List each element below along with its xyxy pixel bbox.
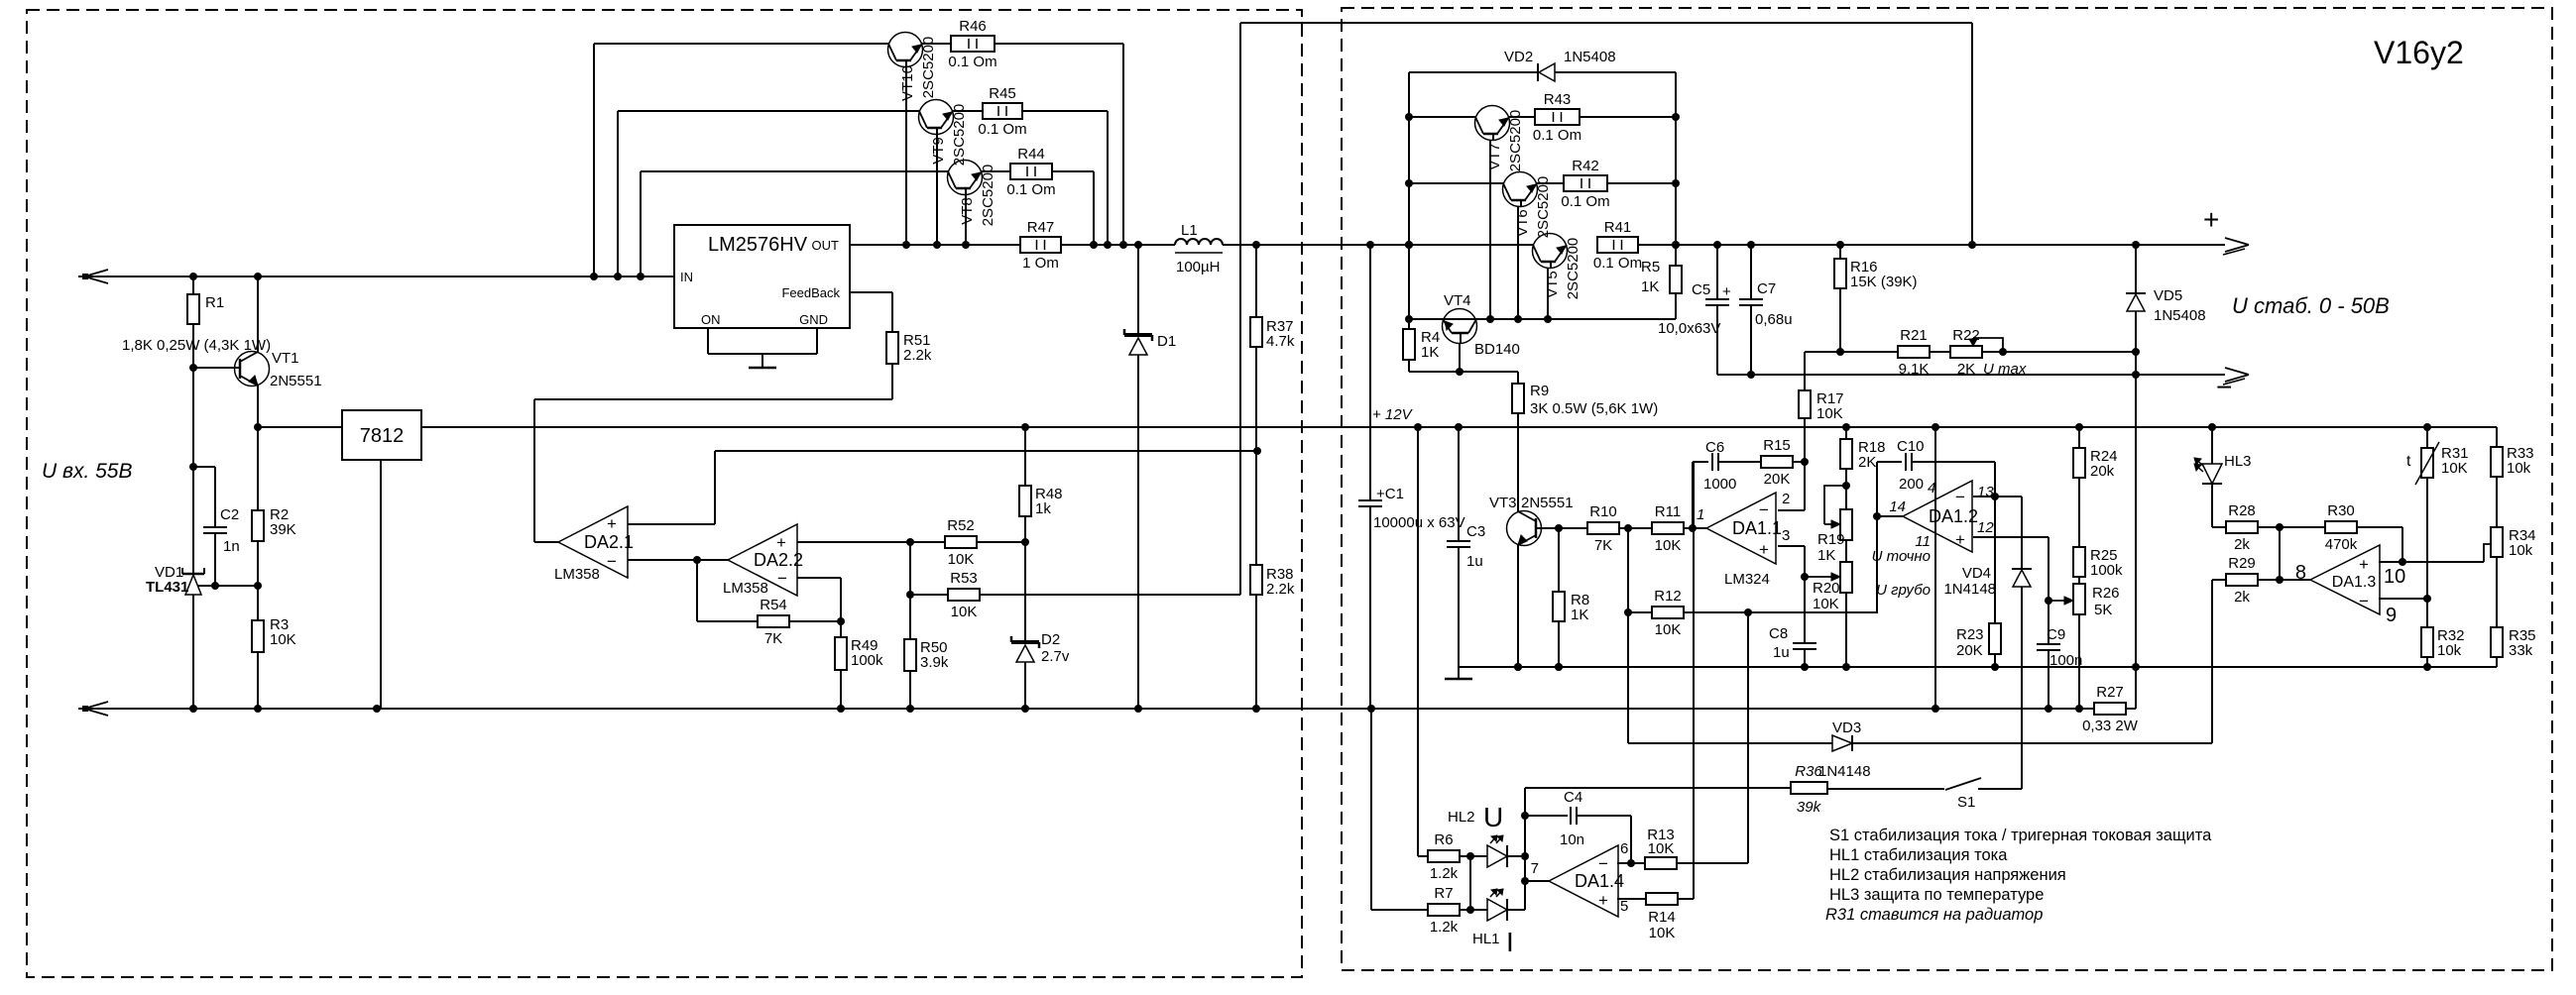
svg-text:C6: C6 (1705, 439, 1724, 456)
resistor R43 (1509, 91, 1581, 144)
wire D1 top (1137, 245, 1139, 335)
svg-text:2.2k: 2.2k (903, 347, 932, 364)
wire C1 bottom (1369, 506, 1371, 709)
pot R34 (2484, 527, 2536, 562)
wire VT1 emitter (254, 386, 262, 431)
svg-text:10k: 10k (2507, 460, 2531, 477)
pot R19 (0, 0, 1852, 564)
svg-text:6: 6 (1620, 840, 1628, 857)
svg-text:2: 2 (1782, 491, 1790, 507)
wire R13 right (1676, 862, 1748, 864)
wire R6 branch (1418, 427, 1429, 856)
diode VD4 (1943, 565, 2032, 598)
op-amp DA2.2 (723, 524, 803, 597)
svg-text:R45: R45 (989, 85, 1016, 102)
svg-text:1N5408: 1N5408 (2154, 307, 2206, 324)
wire S1 line left (1525, 787, 1791, 789)
wire LM2576 out line (850, 244, 1020, 246)
svg-text:C2: C2 (220, 506, 239, 523)
svg-text:C10: C10 (1897, 438, 1925, 455)
capacitor C7 (1739, 245, 1793, 328)
svg-text:+: + (1722, 283, 1731, 300)
wire R50 top (906, 542, 914, 639)
svg-text:+: + (1955, 530, 1965, 549)
svg-text:−: − (607, 552, 617, 571)
svg-text:1K: 1K (1817, 547, 1835, 564)
wire rail corner R33 (2496, 427, 2498, 447)
inductor L1 (1175, 222, 1223, 276)
label U tochno (1872, 548, 1931, 565)
svg-text:200: 200 (1899, 476, 1924, 493)
svg-text:1u: 1u (1773, 644, 1790, 661)
wire VD1 to rail (192, 595, 194, 709)
svg-text:R5: R5 (1641, 259, 1660, 276)
svg-text:−: − (2216, 372, 2232, 402)
op-amp DA2.1 (554, 506, 634, 583)
svg-text:20k: 20k (2090, 463, 2115, 480)
svg-text:1u: 1u (1466, 553, 1483, 570)
svg-text:−: − (1598, 854, 1608, 873)
wire VT9 collector (933, 134, 941, 249)
svg-text:10K: 10K (948, 551, 975, 568)
svg-text:−: − (1955, 488, 1965, 506)
svg-text:8: 8 (2295, 562, 2306, 584)
svg-text:R20: R20 (1813, 580, 1840, 597)
svg-text:10K: 10K (1816, 405, 1843, 422)
svg-text:33k: 33k (2509, 642, 2533, 659)
svg-text:7K: 7K (1594, 537, 1612, 554)
transistor VT5 (1533, 234, 1582, 300)
svg-text:10: 10 (2384, 566, 2405, 588)
svg-text:39k: 39k (1797, 799, 1822, 816)
wire R24 R25 (2078, 478, 2080, 547)
resistor R2 (252, 427, 296, 586)
svg-text:+ 12V: + 12V (1372, 406, 1414, 423)
capacitor C8 (1769, 577, 1816, 661)
svg-text:1.2k: 1.2k (1430, 919, 1459, 936)
svg-text:2SC5200: 2SC5200 (920, 37, 937, 99)
svg-text:0.1 Om: 0.1 Om (1006, 181, 1055, 198)
wire D2 bottom (1024, 662, 1026, 709)
wire R14 right (1677, 898, 1694, 900)
wire R43 right (1580, 116, 1676, 118)
svg-text:1K: 1K (1421, 344, 1439, 361)
resistor R9 (0, 0, 1658, 511)
svg-text:LM2576HV: LM2576HV (708, 234, 808, 256)
wire VT1 collector (257, 276, 259, 352)
svg-text:14: 14 (1889, 498, 1906, 515)
wire VD5 bottom (2135, 311, 2137, 667)
wire D1 bottom (1137, 355, 1139, 709)
wire DA11 pin2 (1778, 462, 1805, 510)
svg-text:0.1 Om: 0.1 Om (1593, 255, 1642, 272)
pot R20 (0, 0, 1852, 612)
wire DA12 power (1934, 427, 1936, 709)
svg-text:R27: R27 (2096, 684, 2124, 701)
svg-text:10K: 10K (1649, 925, 1676, 941)
svg-text:R36: R36 (1795, 763, 1822, 780)
resistor R28 (2226, 502, 2258, 553)
wire R14 vertical (1693, 462, 1695, 899)
wire R42 right (1607, 182, 1676, 184)
svg-text:U точно: U точно (1872, 548, 1931, 565)
resistor R29 (2212, 555, 2258, 606)
diode VD1 TL431 (146, 564, 204, 596)
resistor R54 (758, 597, 789, 647)
wire R22 to VD5 (1981, 348, 2140, 356)
transistor VT8 (948, 161, 997, 227)
frame left dashed box (27, 10, 1302, 977)
resistor R44 (982, 146, 1056, 198)
resistor R13 (1645, 827, 1677, 869)
svg-text:S1 стабилизация тока / тригерн: S1 стабилизация тока / тригерная токовая… (1829, 827, 2212, 844)
label U vx 55V (42, 460, 133, 483)
wire DA11 pin3 (1778, 546, 1809, 581)
wire VT3 to VD3 (1627, 612, 1629, 743)
wire VT10 collector (902, 66, 910, 249)
label legend (1825, 827, 2212, 924)
svg-text:2k: 2k (2234, 536, 2250, 553)
wire DA12 pin13 (1973, 493, 2022, 500)
svg-text:HL3 защита по температуре: HL3 защита по температуре (1829, 886, 2044, 904)
transistor VT4 (1443, 292, 1520, 358)
svg-text:L1: L1 (1181, 222, 1198, 239)
wire R21 line (1805, 348, 1899, 356)
svg-text:R7: R7 (1434, 885, 1453, 902)
svg-text:DA1.1: DA1.1 (1732, 518, 1782, 538)
diode VD2 (1409, 49, 1676, 81)
resistor R18 (1840, 427, 1886, 471)
svg-text:1k: 1k (1035, 500, 1051, 517)
svg-text:R23: R23 (1956, 626, 1984, 643)
svg-text:1 Om: 1 Om (1022, 255, 1059, 272)
label U grubo (1876, 582, 1931, 599)
svg-text:ON: ON (701, 312, 721, 327)
resistor R35 (2491, 627, 2536, 659)
wire VT3 emitter (1514, 545, 1522, 671)
wire DA12 fb (1877, 462, 1902, 516)
wire 7812 gnd (380, 460, 382, 709)
svg-text:2N5551: 2N5551 (1521, 495, 1574, 511)
resistor R51 (886, 292, 932, 399)
resistor R7 (1428, 885, 1460, 936)
wire R41 right (1638, 241, 1717, 249)
wire VT8 base line (641, 171, 948, 276)
svg-text:R41: R41 (1604, 219, 1632, 236)
wire VT10 base line (594, 44, 888, 276)
resistor R33 (2491, 445, 2534, 477)
svg-text:VT4: VT4 (1444, 292, 1471, 309)
wire C8 bottom (1804, 649, 1806, 667)
svg-text:4.7k: 4.7k (1266, 333, 1295, 350)
wire C5 bottom (1716, 305, 1718, 375)
switch S1 (1945, 778, 1981, 811)
svg-text:0.1 Om: 0.1 Om (1533, 127, 1581, 144)
pot R26 (0, 0, 2120, 618)
label +12V (1372, 406, 1414, 423)
svg-text:2SC5200: 2SC5200 (951, 104, 968, 166)
ic U1 LM2576HV (674, 225, 850, 328)
wire C9 top (2048, 601, 2049, 644)
svg-text:R42: R42 (1572, 158, 1599, 174)
wire DA14 out vertical (1521, 788, 1529, 910)
svg-text:C9: C9 (2047, 626, 2065, 643)
wire VT1 base (189, 364, 240, 372)
resistor R23 (0, 0, 2001, 667)
port minus output arrow (2216, 368, 2249, 402)
wire out line to L1 (1061, 241, 1175, 249)
wire DA14 out pin (1525, 880, 1549, 882)
resistor R27 (2082, 684, 2139, 734)
svg-text:I: I (1506, 927, 1514, 957)
wire HL3 bottom (2212, 484, 2227, 527)
svg-text:U вх. 55В: U вх. 55В (42, 460, 133, 483)
svg-text:D2: D2 (1041, 631, 1060, 648)
svg-text:10K: 10K (951, 604, 978, 620)
wire minus line (1717, 371, 2225, 379)
svg-text:−: − (2359, 592, 2369, 610)
svg-text:20K: 20K (1956, 642, 1983, 659)
wire R34 R35 (2496, 557, 2498, 627)
resistor R30 (2325, 502, 2358, 553)
op-amp DA1.2 (1889, 480, 1994, 552)
wire VD2 right vertical (1672, 72, 1680, 249)
port plus output arrow (2203, 204, 2249, 255)
transistor VT3 (1489, 495, 1574, 546)
svg-text:HL3: HL3 (2224, 453, 2252, 470)
svg-text:10n: 10n (1560, 831, 1584, 848)
svg-text:100µH: 100µH (1176, 259, 1221, 276)
capacitor C1 (1358, 245, 1465, 531)
resistor R17 (1799, 390, 1844, 422)
wire R45 out (1022, 111, 1112, 249)
wire R6 right (1460, 852, 1487, 860)
svg-text:LM358: LM358 (554, 566, 600, 583)
led HL3 (2194, 453, 2252, 484)
wire R18 R19 (1842, 469, 1850, 509)
svg-text:BD140: BD140 (1474, 341, 1520, 358)
wire R26 bottom (2078, 614, 2080, 709)
wire VD5 top (2135, 245, 2137, 293)
svg-text:2N5551: 2N5551 (270, 373, 322, 389)
svg-text:VT1: VT1 (272, 350, 299, 367)
svg-text:1N4148: 1N4148 (1943, 581, 1996, 598)
svg-text:TL431: TL431 (146, 579, 188, 596)
wire R28 right (2258, 523, 2326, 531)
svg-text:VT7: VT7 (1486, 143, 1503, 170)
wire R7 branch (1371, 709, 1429, 910)
svg-text:2SC5200: 2SC5200 (1507, 110, 1524, 172)
led HL1 (1472, 889, 1514, 957)
wire HL3 top (2211, 427, 2213, 464)
wire VD1 ref line (198, 582, 262, 590)
regulator 7812 (342, 410, 421, 460)
svg-text:+: + (607, 514, 617, 533)
wire S1 right (1978, 788, 2022, 790)
wire R12 left (1624, 528, 1632, 616)
wire VT7 collector (1486, 140, 1494, 323)
svg-text:VT8: VT8 (959, 197, 976, 225)
svg-text:7: 7 (1531, 860, 1539, 877)
svg-text:C8: C8 (1769, 625, 1788, 642)
svg-text:VD3: VD3 (1832, 719, 1861, 736)
svg-text:VD2: VD2 (1504, 49, 1533, 65)
svg-text:R19: R19 (1817, 531, 1845, 548)
wire R54 left (697, 560, 759, 621)
svg-text:+: + (1598, 891, 1608, 910)
svg-text:C7: C7 (1757, 280, 1776, 297)
resistor R12 (1628, 588, 1684, 638)
svg-text:1N5408: 1N5408 (1564, 49, 1616, 65)
svg-text:R29: R29 (2228, 555, 2256, 572)
svg-text:+: + (2203, 204, 2219, 235)
svg-text:C4: C4 (1564, 789, 1582, 806)
wire R46 out (995, 44, 1127, 249)
wire DA11 fb up (1693, 462, 1708, 528)
svg-text:1K: 1K (1641, 278, 1659, 295)
svg-text:C3: C3 (1466, 523, 1485, 540)
svg-text:R47: R47 (1027, 219, 1055, 236)
svg-text:U: U (1483, 802, 1503, 832)
wire R10 R11 (1619, 524, 1653, 532)
resistor R21 (1898, 327, 1930, 378)
svg-text:2SC5200: 2SC5200 (1565, 238, 1581, 300)
svg-text:HL2 стабилизация напряжения: HL2 стабилизация напряжения (1829, 866, 2066, 884)
svg-text:1: 1 (1697, 506, 1704, 523)
op-amp DA1.1 (1697, 491, 1790, 588)
svg-text:10K: 10K (1655, 537, 1682, 554)
wire R17 top (1804, 352, 1806, 390)
wire R36 to S1 (1827, 788, 1944, 790)
svg-text:2SC5200: 2SC5200 (1535, 176, 1552, 239)
capacitor C2 (203, 506, 240, 555)
diode VD5 (2126, 287, 2206, 324)
capacitor C3 (1447, 427, 1485, 570)
svg-text:S1: S1 (1957, 794, 1975, 811)
svg-text:R1: R1 (205, 294, 224, 311)
wire R27 right (2126, 667, 2136, 709)
wire VD4 top (2021, 497, 2023, 569)
svg-text:2K: 2K (1858, 454, 1876, 471)
wire C4 right (1577, 816, 1635, 867)
svg-text:2.7v: 2.7v (1041, 648, 1070, 665)
wire R25 R26 (2078, 577, 2080, 584)
wire LM2576 on gnd (708, 328, 817, 368)
wire VT4 base line (1409, 368, 1518, 376)
wire DA2.2 minus (797, 578, 841, 621)
svg-text:2k: 2k (2234, 589, 2250, 606)
wire R15 right (1792, 458, 1809, 466)
svg-text:9: 9 (2386, 605, 2397, 626)
resistor R36 (1791, 763, 1827, 816)
wire R44 out (1052, 171, 1098, 249)
resistor R22 (1950, 327, 2027, 378)
resistor R47 (1020, 219, 1061, 272)
svg-text:9,1K: 9,1K (1899, 361, 1930, 378)
wire R29 right (2258, 576, 2310, 584)
svg-text:LM324: LM324 (1724, 571, 1770, 588)
wire VT7 base (1409, 116, 1475, 118)
svg-text:10k: 10k (2509, 542, 2533, 559)
wire HL2 right (1507, 852, 1529, 860)
wire collector rail (1409, 318, 1676, 320)
wire DA14 pin6 (1617, 862, 1646, 864)
wire R29 to VD3 line (2211, 580, 2213, 743)
svg-text:10K: 10K (1813, 596, 1839, 612)
svg-text:39K: 39K (270, 521, 296, 538)
resistor R10 (1587, 503, 1619, 554)
svg-text:R31 ставится на радиатор: R31 ставится на радиатор (1825, 906, 2043, 924)
wire C2 branch (193, 467, 215, 527)
svg-text:R21: R21 (1900, 327, 1928, 344)
wire DA13 plus (2379, 558, 2484, 566)
resistor R42 (1537, 158, 1610, 210)
svg-text:0.1 Om: 0.1 Om (948, 54, 996, 70)
svg-text:VT10: VT10 (899, 65, 916, 101)
wire C10 right (1912, 462, 1995, 497)
wire R19 R20 (1845, 540, 1847, 562)
resistor R50 (904, 639, 949, 709)
capacitor C6 (1703, 439, 1736, 493)
svg-text:10,0x63V: 10,0x63V (1658, 320, 1720, 337)
svg-text:HL2: HL2 (1448, 809, 1475, 826)
wire C4 left (1525, 815, 1568, 817)
svg-text:R14: R14 (1648, 909, 1676, 926)
resistor R4 (1403, 319, 1440, 372)
capacitor C4 (1560, 789, 1584, 848)
zener D1 (1124, 329, 1176, 355)
svg-text:5: 5 (1620, 898, 1628, 915)
svg-text:R46: R46 (959, 18, 987, 35)
svg-text:10000u x 63V: 10000u x 63V (1373, 514, 1465, 531)
label R1 value (122, 337, 271, 354)
capacitor C10 (1897, 438, 1925, 493)
svg-text:DA2.1: DA2.1 (584, 532, 634, 552)
svg-text:R26: R26 (2092, 585, 2120, 602)
svg-text:7812: 7812 (360, 425, 405, 447)
thermistor R31 (2406, 427, 2469, 485)
wire VT4 base stub (1459, 343, 1461, 372)
zener D2 (1011, 631, 1070, 665)
wire L1 to VT5 (1223, 241, 1533, 249)
transistor VT6 (1503, 172, 1553, 239)
wire feedback pin (850, 291, 892, 293)
svg-text:10K: 10K (1655, 621, 1682, 638)
svg-text:−: − (777, 569, 787, 588)
wire R21 R22 (1930, 351, 1951, 353)
resistor R15 (1761, 437, 1793, 488)
wire HL1 right (1507, 909, 1525, 911)
resistor R8 (1553, 528, 1589, 671)
wire C7 bottom (1747, 305, 1755, 379)
transistor VT9 (919, 100, 969, 166)
wire R13 vertical (1747, 612, 1749, 863)
transistor VT10 (888, 33, 938, 101)
svg-text:R11: R11 (1655, 503, 1681, 520)
resistor R14 (1646, 893, 1678, 941)
svg-text:7K: 7K (764, 630, 782, 647)
resistor R24 (2073, 427, 2118, 480)
wire VD4 bottom (2021, 587, 2023, 789)
svg-text:+: + (1759, 540, 1769, 559)
capacitor C5 (1658, 245, 1731, 337)
resistor R45 (953, 85, 1027, 138)
svg-text:3: 3 (1782, 527, 1790, 544)
wire R7 right (1460, 906, 1487, 914)
wire output line right (1713, 241, 2225, 249)
resistor R1 (187, 276, 224, 358)
svg-text:0,33 2W: 0,33 2W (2082, 718, 2139, 734)
